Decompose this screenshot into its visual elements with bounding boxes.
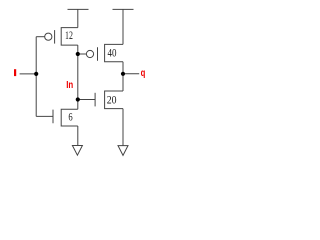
transistor M4 NMOS gate plate — [94, 93, 96, 107]
transistor M2 PMOS channel bracket — [105, 44, 123, 61]
wire VDD2 stem to M2 source — [122, 10, 124, 45]
power VDD symbol 1 (left rail T-bar) — [68, 8, 89, 10]
wire input bus vertical — [35, 37, 37, 117]
ground symbol 1 (triangle) — [72, 146, 82, 156]
transistor M1 gate plate — [54, 30, 56, 43]
wire node In to M2 gate — [78, 53, 87, 55]
power VDD symbol 2 (right rail T-bar) — [113, 8, 134, 10]
transistor M1 gate bubble — [45, 33, 52, 40]
svg-text:40: 40 — [108, 47, 117, 59]
svg-text:In: In — [66, 80, 73, 91]
transistor M3 NMOS channel bracket — [61, 109, 78, 126]
wire M4 source to ground 2 — [122, 109, 124, 146]
svg-text:6: 6 — [68, 112, 72, 124]
svg-text:12: 12 — [65, 30, 73, 42]
wire VDD1 stem to M1 source — [77, 10, 79, 28]
junction node In upper (drain / M2 gate) — [76, 52, 80, 56]
svg-text:20: 20 — [107, 95, 117, 107]
net label I (input) — [14, 69, 16, 76]
svg-text:q: q — [141, 68, 146, 79]
transistor M4 NMOS channel bracket — [105, 91, 123, 109]
transistor M2 gate bubble — [86, 50, 93, 57]
transistor M3 NMOS gate plate — [52, 110, 54, 124]
junction node input (bus / I stub) — [34, 72, 38, 76]
transistor M2 gate plate — [97, 47, 99, 61]
wire node In to M4 gate — [78, 99, 95, 101]
wire M3 source to ground 1 — [77, 126, 79, 146]
wire input stub from label I — [20, 73, 37, 75]
junction node q (drain / q stub) — [121, 72, 125, 76]
wire gate of M1 to input bus — [36, 36, 45, 38]
wire gate of M3 from input bus — [36, 115, 53, 117]
ground symbol 2 (triangle) — [118, 146, 128, 156]
transistor M1 PMOS channel bracket — [61, 28, 78, 45]
wire node In vertical (M1 drain to M3 drain) — [77, 45, 79, 109]
junction node In lower (drain / M4 gate) — [76, 97, 80, 101]
wire node q vertical (M2 drain to M4 drain) — [122, 62, 124, 91]
wire node q stub to label q — [123, 73, 139, 75]
